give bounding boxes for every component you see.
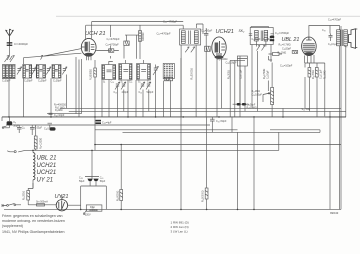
svg-text:C₂₉=4700pF: C₂₉=4700pF [328,19,342,22]
cathode resistor small [292,51,298,54]
tube UY21 rectifier [56,196,67,211]
tuning arrows over L1 [5,56,15,63]
svg-text:50µF: 50µF [100,180,106,183]
svg-text:C₁₀=10pF: C₁₀=10pF [54,114,65,117]
svg-text:R₁₇0.3MΩ: R₁₇0.3MΩ [247,108,257,110]
wire T2 cathode and IFT2 leads [217,51,268,117]
svg-text:UCH21: UCH21 [37,163,57,169]
svg-text:R₃0.1MΩ: R₃0.1MΩ [55,107,65,109]
loudspeaker [349,29,358,49]
svg-text:C₁₉=4µF: C₁₉=4µF [102,122,112,125]
capacitor C 4uF mid [96,120,102,124]
svg-text:30000Ω: 30000Ω [142,32,145,41]
heater rail y150.4 with step [25,132,279,150]
wire from blob area down [31,133,33,135]
svg-text:C₃30pF: C₃30pF [24,80,33,83]
svg-text:C₂₃50pF: C₂₃50pF [247,104,256,106]
svg-text:C₁₈0.05µF: C₁₈0.05µF [226,62,238,65]
bus rail D y125 [6,124,210,126]
svg-text:C₂30pF: C₂30pF [2,80,11,83]
svg-text:UCH21: UCH21 [37,170,57,176]
trimmer T1a [17,67,22,75]
frame top border [56,15,360,17]
wire bank1 downleads [9,75,67,117]
grid stopper box T2 [205,46,211,51]
coil box L4 [52,65,61,79]
trimmer T1d [62,67,67,75]
bus rail A y107 [60,107,341,109]
svg-text:520pF: 520pF [147,91,154,94]
svg-text:R₉=1200Ω: R₉=1200Ω [40,138,43,149]
oscillator padder trimmer [153,65,159,79]
field coil Sp 10000ohm box [86,205,102,211]
wire UY21 to bottom rail [68,204,81,206]
svg-text:R₂=40000Ω: R₂=40000Ω [54,105,66,107]
bus rail C main y116.9 [2,116,346,118]
IF transformer IFT2 [250,28,273,45]
svg-text:(supplement): (supplement) [2,224,23,228]
svg-text:C₂₁50pF: C₂₁50pF [252,38,261,41]
long verticals to bottom rail [181,58,254,209]
svg-text:R₂₂8000Ω: R₂₂8000Ω [117,190,119,201]
tube UBL21 [302,37,317,63]
wires from band switch box down [240,66,245,111]
svg-text:C₁₆: C₁₆ [139,91,143,94]
IFT1 trimmers below [185,47,195,53]
svg-text:2 RW Jan (N): 2 RW Jan (N) [171,225,189,229]
antenna [6,29,14,46]
IFT2 side caps [249,34,274,36]
junction dots on main bus [8,116,331,118]
svg-text:C₁₄: C₁₄ [111,82,114,84]
UBL lead wires [305,63,325,117]
grid line to second h rail [86,24,203,34]
svg-text:C₂₄100pF: C₂₄100pF [252,94,263,97]
downleads band2 coils to bus [102,79,171,117]
capacitor C1 4000pF [7,42,13,46]
UBL grid/screen resistor stack [308,68,311,78]
ground/chassis left edge [1,117,3,121]
trimmer T1b [32,67,37,75]
svg-text:S₂₄ 50Ω: S₂₄ 50Ω [302,108,311,111]
resistor R 125ohm below osc coil [164,77,172,81]
svg-text:C₇=4700pF: C₇=4700pF [107,37,120,41]
svg-text:R₁₀50000Ω: R₁₀50000Ω [191,68,193,80]
svg-text:UCH 21: UCH 21 [85,31,106,37]
volume potentiometer [271,88,274,105]
anode lead T1 to IFT1 [92,22,184,39]
screen resistor R23 [205,117,208,209]
svg-text:R₁₆1MΩ: R₁₆1MΩ [278,52,287,55]
trimmer pair A below band coils [115,82,120,90]
svg-text:50µF: 50µF [79,180,85,183]
frame right border [340,26,342,209]
caption text block [2,214,65,234]
svg-text:UCH21: UCH21 [216,29,234,35]
coupling cap C16 to UCH21 no.2 [204,28,208,117]
svg-text:C₁₂: C₁₂ [22,128,25,130]
svg-text:C₂₅50pF: C₂₅50pF [267,70,269,79]
svg-text:99643: 99643 [330,211,339,215]
coil box L5 [102,62,116,80]
trimmer pair B below band coils [140,82,145,90]
AVC wire from bank to right [24,53,82,59]
bleeder resistor R22 8000 [120,145,123,210]
bus rail B y110.5 [69,110,346,112]
coil box L7 [137,60,151,80]
svg-text:C₅30pF: C₅30pF [53,80,62,83]
svg-text:SK₂: SK₂ [239,29,246,33]
svg-text:C₃₀: C₃₀ [322,29,326,32]
svg-text:R₁₅=0.7MΩ: R₁₅=0.7MΩ [279,44,291,47]
IFT2 lower leads [252,53,272,109]
tube UCH21 no.2 [212,37,226,59]
svg-text:R₄2MΩ: R₄2MΩ [55,110,63,112]
mains plug and switch [2,203,56,205]
verticals right mid [283,108,330,209]
svg-text:50µF: 50µF [13,124,19,127]
tube UCH21 no.1 [81,38,96,60]
svg-text:C₂₅=30pF: C₂₅=30pF [216,120,227,123]
cap cluster under heater top [17,125,35,133]
grid top-cap lead of UCH21 no.1 [85,25,87,40]
coil box L3 [36,65,45,79]
AF coupling cap C25 30pF [210,117,215,132]
resistor R3 30000ohm vertical with label [94,60,97,150]
coil bank L1 (4-column antenna coil block) [2,64,16,78]
IFT2 tuning arrows [257,46,266,51]
svg-text:S₃: S₃ [138,82,141,84]
svg-text:UBL 21: UBL 21 [282,37,300,43]
bus rail E y132.3 [95,130,320,133]
osc coupling coil vertical [139,31,142,42]
svg-text:3 LW Lan (L): 3 LW Lan (L) [171,230,188,234]
heater chain loops [33,153,35,180]
coil box L6 [119,60,132,80]
svg-text:R₁₈0.5MΩ: R₁₈0.5MΩ [264,69,266,79]
band legend [171,221,189,234]
svg-text:R₁30000Ω: R₁30000Ω [90,69,93,80]
svg-text:C₃₂0.1µF: C₃₂0.1µF [320,69,322,79]
trimmer T1c [46,67,51,75]
psu frame wires [81,150,107,209]
mid rail y144.5 [95,144,341,146]
svg-text:C₁₆=50pF: C₁₆=50pF [201,29,213,33]
svg-text:Friem: gegevens en schakelinge: Friem: gegevens en schakelingen van [2,214,63,218]
junction dots on bottom rail and mid rails [32,144,255,211]
svg-text:C₈=4700pF: C₈=4700pF [106,43,120,47]
svg-text:R₂₁: R₂₁ [90,207,94,209]
svg-text:R₁₄50000Ω: R₁₄50000Ω [203,190,205,202]
band switch box below IFT2 [237,56,247,66]
mains dropper resistor bottom [27,183,33,205]
svg-text:S₂: S₂ [121,82,124,84]
electrolytic blob mid [50,127,56,130]
svg-text:C₂₆=100pF: C₂₆=100pF [280,65,293,68]
svg-text:10000Ω: 10000Ω [90,210,98,212]
svg-text:1941, NV Philips Gloeilampenfa: 1941, NV Philips Gloeilampenfabrieken [2,230,65,234]
svg-text:R₂₀350Ω: R₂₀350Ω [24,191,26,200]
output transformer [337,30,348,47]
plate lead UCH21 no.2 to IFT2 [251,27,269,28]
oscillator coil grid box L8 [163,64,174,79]
detector diode resistor [269,53,283,56]
svg-text:C₂₀0.1µF: C₂₀0.1µF [241,69,243,79]
grid resistor box [124,41,129,45]
svg-text:moderne ontvang- en versterker: moderne ontvang- en versterker-buizen [2,219,65,223]
plate lead UBL21 to output transformer [309,26,340,38]
switch at left edge mid [2,117,9,128]
svg-text:C₄30pF: C₄30pF [38,80,47,83]
wire pot connections [263,63,272,117]
IFT1 leads [181,25,196,117]
capacitor C11 0.1uF [48,123,53,128]
doubler cap C39 [87,179,92,182]
svg-text:C₁₅: C₁₅ [129,82,132,84]
svg-text:R₁₉150Ω: R₁₉150Ω [313,70,315,79]
IF transformer IFT1 [180,29,201,45]
svg-text:C₂₇=4700pF: C₂₇=4700pF [275,31,289,35]
det cap blobs [237,103,241,106]
transformer leads down [325,46,346,210]
svg-text:C₂₈50pF: C₂₈50pF [282,48,292,51]
svg-text:S₁: S₁ [103,82,106,84]
top cap feedback C30 [329,34,333,42]
IFT2 leads down [252,41,271,57]
capacitor C10 10pF [49,113,53,114]
small components under grid labels [96,49,119,53]
svg-text:1 RW 891 (D): 1 RW 891 (D) [171,221,189,225]
svg-text:C¹=4000pF: C¹=4000pF [14,42,28,46]
T1 lead wires down to bus [47,57,82,117]
mains on-off switch on heater rail [18,150,25,152]
svg-text:C₁₃: C₁₃ [114,91,118,94]
wire screen feed T2 [230,60,245,117]
mains 220V arrow [84,209,88,214]
svg-text:C₁₂=4700pF: C₁₂=4700pF [157,32,171,36]
svg-text:UY 21: UY 21 [37,177,54,183]
coil box L2 [23,65,32,79]
frame bottom border [4,208,341,210]
coupling electrolytic to UBL21 [270,36,274,41]
pot wiper arrow [263,93,270,95]
heater dropper resistor with label [34,125,37,150]
electrolytic blob left [7,121,13,125]
doubler cap C40 [93,179,98,182]
wire antenna down to coil bank 1 [9,46,11,56]
svg-text:C₃₁0.1µF: C₃₁0.1µF [328,44,338,46]
svg-text:Sm 500mA: Sm 500mA [36,201,48,204]
svg-text:220V: 220V [85,214,91,217]
svg-text:UBL 21: UBL 21 [37,156,57,162]
